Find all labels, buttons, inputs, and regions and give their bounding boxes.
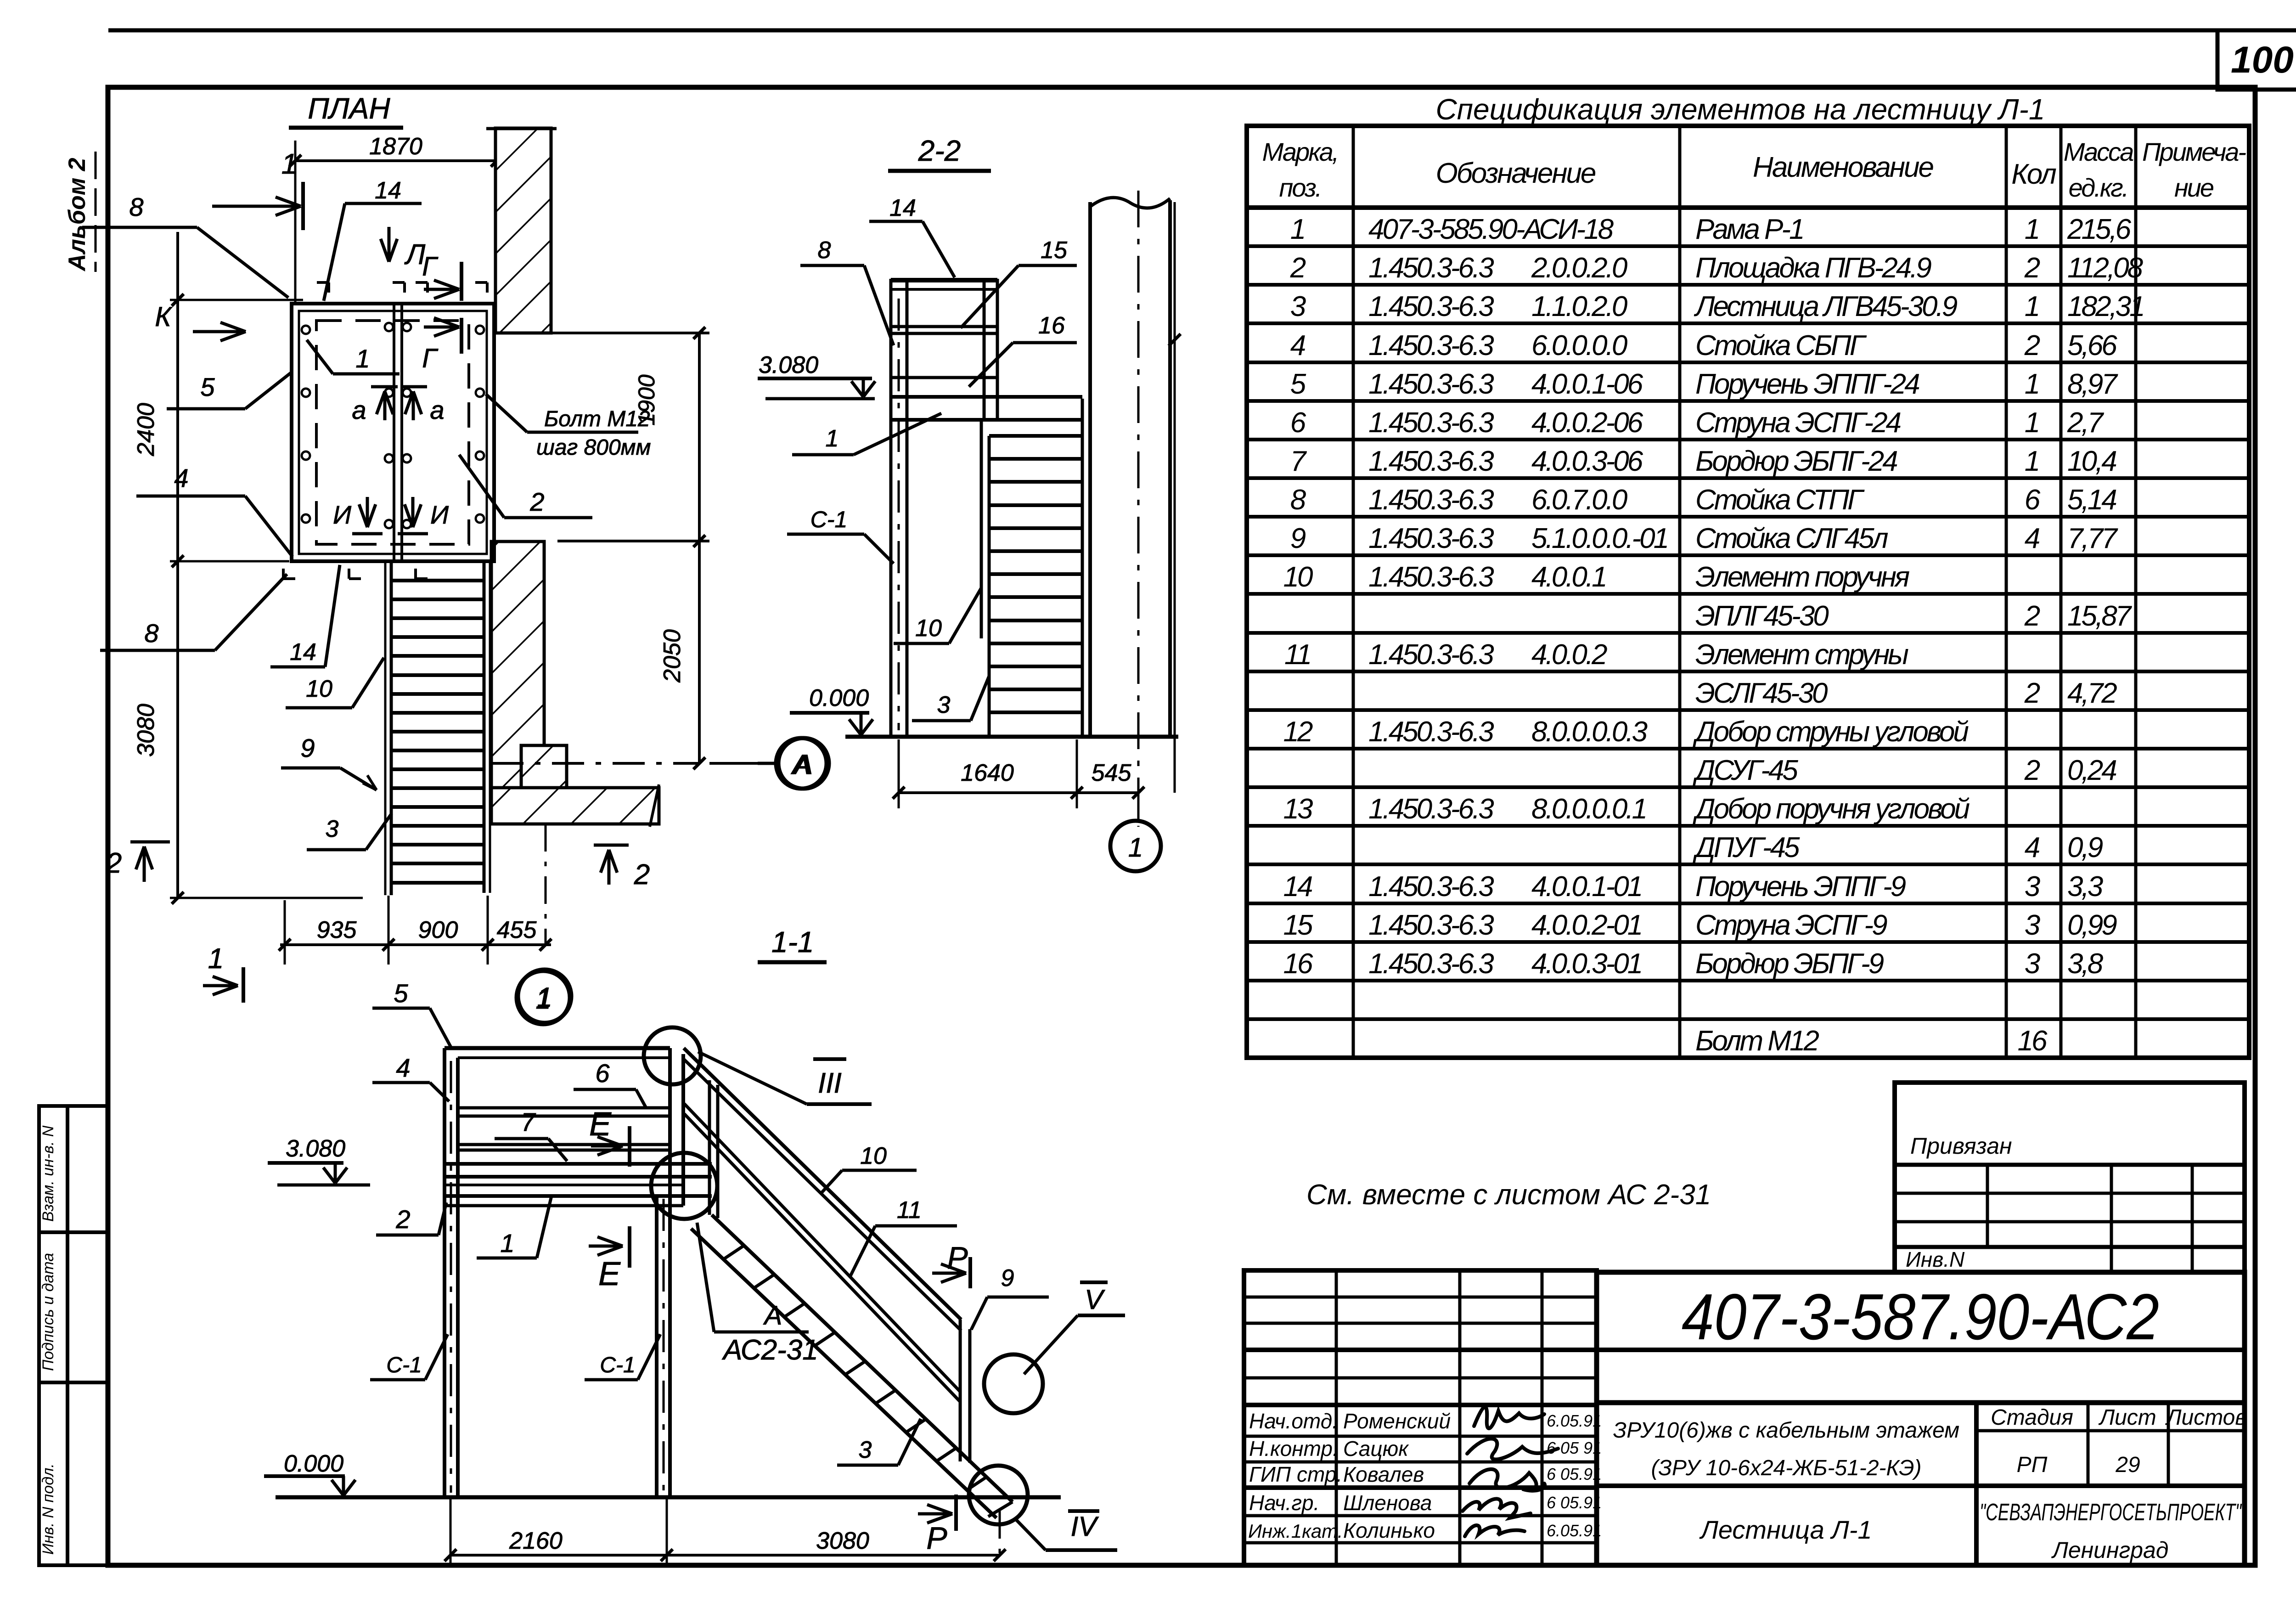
svg-text:Инв.N: Инв.N: [1906, 1247, 1965, 1271]
svg-text:2160: 2160: [509, 1528, 563, 1554]
svg-text:6.0.7.0.0: 6.0.7.0.0: [1531, 484, 1627, 516]
svg-text:Альбом 2: Альбом 2: [64, 158, 90, 272]
svg-text:5: 5: [1290, 368, 1306, 400]
svg-text:ние: ние: [2174, 173, 2214, 202]
svg-text:Лестница ЛГВ45-30.9: Лестница ЛГВ45-30.9: [1694, 291, 1958, 322]
svg-text:А: А: [763, 1301, 782, 1331]
svg-text:Поручень ЭППГ-9: Поручень ЭППГ-9: [1695, 871, 1906, 903]
svg-text:Сацюк: Сацюк: [1343, 1437, 1409, 1461]
svg-text:1: 1: [2025, 214, 2038, 245]
svg-text:407-3-587.90-АС2: 407-3-587.90-АС2: [1682, 1280, 2159, 1354]
svg-text:5,14: 5,14: [2067, 484, 2116, 516]
svg-text:100: 100: [2231, 39, 2294, 81]
svg-text:15,87: 15,87: [2067, 600, 2133, 632]
svg-text:Привязан: Привязан: [1910, 1133, 2012, 1159]
svg-text:Нач.гр.: Нач.гр.: [1249, 1491, 1319, 1515]
svg-text:1: 1: [281, 148, 297, 180]
svg-text:1: 1: [2025, 407, 2038, 439]
svg-text:E: E: [598, 1256, 621, 1292]
svg-text:0,9: 0,9: [2067, 832, 2103, 863]
svg-text:А: А: [793, 749, 813, 780]
svg-text:Рама Р-1: Рама Р-1: [1695, 214, 1803, 245]
svg-text:Инв. N подл.: Инв. N подл.: [39, 1463, 57, 1555]
svg-text:10: 10: [915, 615, 942, 642]
svg-text:Бордюр ЭБПГ-9: Бордюр ЭБПГ-9: [1695, 948, 1884, 980]
svg-text:4.0.0.3-01: 4.0.0.3-01: [1531, 948, 1641, 980]
svg-text:1: 1: [2025, 446, 2038, 477]
svg-text:6: 6: [595, 1059, 610, 1088]
svg-text:Поручень ЭППГ-24: Поручень ЭППГ-24: [1695, 368, 1919, 400]
svg-text:Площадка ПГВ-24.9: Площадка ПГВ-24.9: [1695, 252, 1931, 284]
svg-text:2-2: 2-2: [918, 134, 961, 167]
svg-text:Марка,: Марка,: [1262, 137, 1338, 166]
svg-text:Ленинград: Ленинград: [2051, 1537, 2169, 1563]
svg-text:0.000: 0.000: [809, 685, 869, 711]
svg-text:3.080: 3.080: [286, 1135, 345, 1162]
svg-text:1: 1: [355, 344, 370, 373]
svg-text:1.450.3-6.3: 1.450.3-6.3: [1368, 793, 1494, 825]
svg-text:Наименование: Наименование: [1753, 152, 1933, 183]
svg-text:2050: 2050: [659, 629, 686, 683]
svg-text:Болт М12: Болт М12: [544, 407, 650, 431]
svg-text:Стойка СБПГ: Стойка СБПГ: [1695, 330, 1867, 361]
svg-text:ЗРУ10(6)жв с кабельным этажем: ЗРУ10(6)жв с кабельным этажем: [1613, 1418, 1959, 1443]
svg-text:"СЕВЗАПЭНЕРГОСЕТЬПРОЕКТ": "СЕВЗАПЭНЕРГОСЕТЬПРОЕКТ": [1980, 1499, 2242, 1526]
svg-text:С-1: С-1: [386, 1353, 422, 1377]
svg-text:2: 2: [2024, 330, 2040, 361]
svg-text:2: 2: [2024, 755, 2040, 786]
svg-text:4.0.0.3-06: 4.0.0.3-06: [1531, 446, 1643, 477]
svg-text:ДПУГ-45: ДПУГ-45: [1693, 832, 1800, 863]
svg-text:1.450.3-6.3: 1.450.3-6.3: [1368, 407, 1494, 439]
svg-text:1: 1: [1290, 214, 1304, 245]
svg-text:29: 29: [2115, 1453, 2140, 1477]
svg-text:V: V: [1085, 1284, 1105, 1315]
svg-text:4.0.0.2: 4.0.0.2: [1531, 639, 1607, 671]
svg-text:6 05.91: 6 05.91: [1547, 1465, 1602, 1484]
svg-text:5: 5: [200, 372, 215, 401]
svg-text:112,08: 112,08: [2067, 252, 2144, 284]
svg-text:Шленова: Шленова: [1343, 1491, 1432, 1515]
svg-text:Стадия: Стадия: [1991, 1405, 2073, 1430]
svg-text:12: 12: [1283, 716, 1313, 748]
svg-text:6.05.91: 6.05.91: [1547, 1521, 1602, 1540]
svg-text:8: 8: [1290, 484, 1306, 516]
svg-text:1: 1: [1128, 833, 1143, 863]
svg-text:3: 3: [2025, 909, 2040, 941]
svg-text:Нач.отд.: Нач.отд.: [1249, 1409, 1338, 1433]
svg-text:7,77: 7,77: [2067, 523, 2118, 554]
svg-text:4.0.0.2-01: 4.0.0.2-01: [1531, 909, 1641, 941]
svg-text:6: 6: [1290, 407, 1306, 439]
svg-text:182,31: 182,31: [2067, 291, 2144, 322]
svg-text:1: 1: [826, 425, 839, 452]
svg-text:Стойка СТПГ: Стойка СТПГ: [1695, 484, 1865, 516]
svg-text:Ковалев: Ковалев: [1343, 1462, 1424, 1486]
svg-text:6 05.91: 6 05.91: [1547, 1493, 1602, 1512]
svg-text:4: 4: [1290, 330, 1306, 361]
svg-text:8.0.0.0.0.1: 8.0.0.0.0.1: [1531, 793, 1646, 825]
svg-text:1.450.3-6.3: 1.450.3-6.3: [1368, 561, 1494, 593]
svg-text:Колинько: Колинько: [1343, 1518, 1435, 1542]
svg-text:4.0.0.2-06: 4.0.0.2-06: [1531, 407, 1643, 439]
svg-text:2400: 2400: [133, 403, 159, 457]
svg-text:поз.: поз.: [1279, 173, 1321, 202]
svg-text:2: 2: [2024, 600, 2040, 632]
svg-text:2: 2: [634, 859, 650, 891]
svg-text:3: 3: [2025, 871, 2040, 903]
svg-text:ПЛАН: ПЛАН: [308, 92, 390, 125]
svg-text:1: 1: [208, 943, 224, 975]
svg-text:1870: 1870: [369, 133, 422, 160]
svg-text:2: 2: [529, 487, 544, 516]
svg-text:а: а: [352, 395, 366, 424]
svg-text:14: 14: [889, 195, 916, 221]
svg-text:ед.кг.: ед.кг.: [2069, 173, 2128, 202]
svg-text:1-1: 1-1: [771, 925, 814, 959]
svg-text:1640: 1640: [961, 760, 1014, 786]
svg-text:С-1: С-1: [600, 1353, 635, 1377]
svg-text:АС2-31: АС2-31: [721, 1334, 818, 1366]
svg-text:ЭСЛГ45-30: ЭСЛГ45-30: [1695, 677, 1828, 709]
svg-text:3080: 3080: [133, 704, 159, 757]
svg-text:3: 3: [937, 692, 951, 718]
svg-text:Лестница Л-1: Лестница Л-1: [1699, 1515, 1872, 1544]
svg-text:Спецификация элементов на лест: Спецификация элементов на лестницу Л-1: [1436, 93, 2045, 126]
svg-text:3: 3: [2025, 948, 2040, 980]
svg-text:10: 10: [1283, 561, 1313, 593]
svg-text:900: 900: [418, 917, 458, 943]
svg-text:1.450.3-6.3: 1.450.3-6.3: [1368, 252, 1494, 284]
svg-text:7: 7: [521, 1107, 536, 1136]
svg-text:8: 8: [129, 192, 143, 221]
svg-text:ЭПЛГ45-30: ЭПЛГ45-30: [1695, 600, 1829, 632]
svg-text:Г: Г: [422, 344, 439, 373]
svg-text:а: а: [430, 395, 444, 424]
svg-text:8,97: 8,97: [2067, 368, 2118, 400]
svg-text:6: 6: [2025, 484, 2041, 516]
svg-text:2: 2: [395, 1205, 410, 1234]
svg-text:0,24: 0,24: [2067, 755, 2116, 786]
svg-text:4: 4: [174, 463, 188, 492]
svg-text:Н.контр.: Н.контр.: [1249, 1437, 1339, 1461]
svg-text:1: 1: [535, 984, 551, 1015]
svg-text:1.450.3-6.3: 1.450.3-6.3: [1368, 368, 1494, 400]
svg-text:5,66: 5,66: [2067, 330, 2117, 361]
svg-text:0,99: 0,99: [2067, 909, 2117, 941]
svg-text:8.0.0.0.0.3: 8.0.0.0.0.3: [1531, 716, 1648, 748]
svg-text:3,8: 3,8: [2067, 948, 2104, 980]
svg-text:Струна ЭСПГ-24: Струна ЭСПГ-24: [1695, 407, 1901, 439]
svg-text:0.000: 0.000: [284, 1450, 343, 1477]
svg-text:935: 935: [317, 917, 357, 943]
svg-text:6.05.91: 6.05.91: [1547, 1411, 1602, 1430]
svg-text:14: 14: [290, 639, 316, 666]
svg-text:3080: 3080: [816, 1528, 869, 1554]
svg-text:4.0.0.1-06: 4.0.0.1-06: [1531, 368, 1643, 400]
svg-text:2: 2: [106, 847, 122, 879]
svg-text:См. вместе с листом АС 2-31: См. вместе с листом АС 2-31: [1306, 1179, 1711, 1211]
svg-text:Добор поручня угловой: Добор поручня угловой: [1693, 793, 1970, 825]
svg-text:IV: IV: [1071, 1511, 1099, 1542]
svg-text:Масса: Масса: [2064, 137, 2133, 166]
svg-text:1.450.3-6.3: 1.450.3-6.3: [1368, 291, 1494, 322]
svg-text:1.450.3-6.3: 1.450.3-6.3: [1368, 948, 1494, 980]
svg-text:3,3: 3,3: [2067, 871, 2103, 903]
svg-text:6.0.0.0.0: 6.0.0.0.0: [1531, 330, 1627, 361]
svg-text:шаг 800мм: шаг 800мм: [536, 435, 651, 460]
svg-text:1.450.3-6.3: 1.450.3-6.3: [1368, 909, 1494, 941]
svg-text:10: 10: [860, 1143, 887, 1169]
svg-text:10: 10: [306, 676, 332, 702]
svg-text:545: 545: [1092, 760, 1132, 786]
svg-text:4: 4: [2025, 523, 2040, 554]
svg-text:(ЗРУ 10-6х24-ЖБ-51-2-КЭ): (ЗРУ 10-6х24-ЖБ-51-2-КЭ): [1651, 1456, 1921, 1480]
svg-text:2.0.0.2.0: 2.0.0.2.0: [1531, 252, 1627, 284]
svg-text:4: 4: [2025, 832, 2040, 863]
svg-text:2: 2: [2024, 677, 2040, 709]
svg-text:1.450.3-6.3: 1.450.3-6.3: [1368, 523, 1494, 554]
svg-text:1.450.3-6.3: 1.450.3-6.3: [1368, 446, 1494, 477]
svg-text:16: 16: [1038, 312, 1065, 339]
svg-text:Обозначение: Обозначение: [1436, 158, 1596, 189]
svg-text:13: 13: [1283, 793, 1313, 825]
svg-text:3: 3: [859, 1437, 872, 1463]
svg-text:1.450.3-6.3: 1.450.3-6.3: [1368, 330, 1494, 361]
svg-text:РП: РП: [2017, 1453, 2048, 1477]
svg-text:1.450.3-6.3: 1.450.3-6.3: [1368, 639, 1494, 671]
svg-text:9: 9: [1001, 1265, 1014, 1292]
svg-text:Г: Г: [422, 252, 439, 282]
svg-text:1.450.3-6.3: 1.450.3-6.3: [1368, 484, 1494, 516]
svg-text:1: 1: [2025, 291, 2038, 322]
svg-text:Лист: Лист: [2098, 1405, 2156, 1430]
svg-text:И: И: [333, 500, 352, 529]
svg-text:И: И: [430, 500, 449, 529]
svg-text:14: 14: [1283, 871, 1312, 903]
svg-text:К: К: [155, 301, 173, 332]
svg-text:4.0.0.1-01: 4.0.0.1-01: [1531, 871, 1641, 903]
svg-text:Бордюр ЭБПГ-24: Бордюр ЭБПГ-24: [1695, 446, 1897, 477]
svg-text:ДСУГ-45: ДСУГ-45: [1693, 755, 1798, 786]
svg-text:16: 16: [1283, 948, 1313, 980]
svg-text:9: 9: [300, 733, 315, 762]
svg-text:1.450.3-6.3: 1.450.3-6.3: [1368, 716, 1494, 748]
svg-text:Роменский: Роменский: [1343, 1409, 1451, 1433]
svg-text:4: 4: [396, 1053, 410, 1082]
svg-text:10,4: 10,4: [2067, 446, 2116, 477]
svg-text:215,6: 215,6: [2067, 214, 2132, 245]
svg-text:14: 14: [375, 177, 401, 204]
svg-text:8: 8: [144, 619, 158, 648]
svg-text:Добор струны угловой: Добор струны угловой: [1693, 716, 1969, 748]
svg-text:1: 1: [2025, 368, 2038, 400]
svg-text:16: 16: [2018, 1025, 2048, 1057]
svg-text:Элемент поручня: Элемент поручня: [1695, 561, 1909, 593]
svg-text:Струна ЭСПГ-9: Струна ЭСПГ-9: [1695, 909, 1887, 941]
svg-text:Взам. ин-в. N: Взам. ин-в. N: [39, 1125, 57, 1222]
svg-text:Подпись и дата: Подпись и дата: [39, 1253, 57, 1371]
svg-text:5: 5: [394, 979, 408, 1008]
svg-text:455: 455: [497, 917, 537, 943]
svg-text:Примеча-: Примеча-: [2142, 137, 2246, 166]
svg-text:1.1.0.2.0: 1.1.0.2.0: [1531, 291, 1627, 322]
svg-text:11: 11: [897, 1197, 922, 1224]
svg-text:P: P: [926, 1521, 947, 1556]
svg-text:С-1: С-1: [810, 507, 848, 532]
svg-text:Инж.1кат.: Инж.1кат.: [1248, 1520, 1343, 1542]
svg-text:8: 8: [818, 237, 831, 264]
svg-text:407-3-585.90-АСИ-18: 407-3-585.90-АСИ-18: [1368, 214, 1614, 245]
svg-text:11: 11: [1284, 639, 1310, 671]
svg-text:Листов: Листов: [2165, 1405, 2247, 1430]
svg-text:2: 2: [2024, 252, 2040, 284]
svg-text:2: 2: [1290, 252, 1306, 284]
svg-text:Элемент струны: Элемент струны: [1695, 639, 1908, 671]
svg-text:4.0.0.1: 4.0.0.1: [1531, 561, 1606, 593]
svg-text:4,72: 4,72: [2067, 677, 2117, 709]
svg-text:5.1.0.0.0.-01: 5.1.0.0.0.-01: [1531, 523, 1667, 554]
svg-text:1: 1: [500, 1229, 514, 1258]
svg-text:9: 9: [1290, 523, 1306, 554]
svg-text:1.450.3-6.3: 1.450.3-6.3: [1368, 871, 1494, 903]
svg-text:15: 15: [1283, 909, 1313, 941]
svg-text:3: 3: [326, 816, 339, 842]
svg-text:III: III: [818, 1067, 842, 1099]
svg-text:Кол: Кол: [2011, 158, 2056, 190]
svg-text:2,7: 2,7: [2067, 407, 2105, 439]
svg-text:3: 3: [1290, 291, 1306, 322]
svg-text:ГИП стр.: ГИП стр.: [1249, 1462, 1342, 1486]
svg-text:Стойка СЛГ45л: Стойка СЛГ45л: [1695, 523, 1888, 554]
svg-text:3.080: 3.080: [759, 352, 818, 378]
svg-text:Болт М12: Болт М12: [1695, 1025, 1819, 1057]
svg-text:15: 15: [1041, 237, 1068, 264]
